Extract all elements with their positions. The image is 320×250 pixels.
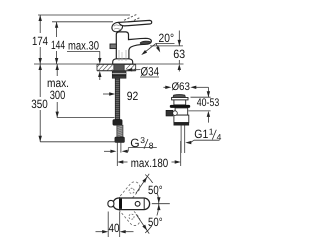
extension line countertop level <box>34 63 184 65</box>
svg-text:G1: G1 <box>194 127 208 141</box>
svg-text:3: 3 <box>140 135 145 145</box>
top view pivot bar <box>119 199 122 209</box>
dim 174 <box>39 15 41 33</box>
faucet raised lever dashed <box>124 14 138 20</box>
dim diam 63 <box>163 86 165 88</box>
svg-text:350: 350 <box>31 97 48 111</box>
shank through counter <box>114 64 124 71</box>
arc 50 down <box>145 204 159 233</box>
G3/8 arrows <box>104 150 111 152</box>
top view body <box>113 198 150 210</box>
extension line solid lever top (144 ref) <box>52 21 113 23</box>
svg-text:Ø34: Ø34 <box>141 64 160 78</box>
dim 350 <box>39 64 41 97</box>
top view dashed handle down 50deg <box>117 201 142 228</box>
svg-text:63: 63 <box>173 47 185 61</box>
label 50 down <box>147 216 165 227</box>
drain tailpipe <box>180 126 182 154</box>
top view dashed handle up 50deg <box>117 180 142 207</box>
dim 144 <box>56 22 58 37</box>
extension line max300 bottom <box>57 117 114 119</box>
faucet body and spout <box>116 32 151 64</box>
extension line 350 bottom <box>40 141 118 143</box>
svg-text:300: 300 <box>50 88 66 102</box>
label 50 up <box>147 183 165 194</box>
dim max.300 <box>56 64 58 76</box>
svg-text:8: 8 <box>149 141 154 151</box>
svg-text:max.180: max.180 <box>131 156 169 170</box>
arc 50 up <box>145 175 159 204</box>
top view spout nub <box>108 200 114 207</box>
mounting nut <box>112 71 126 78</box>
svg-text:92: 92 <box>127 89 139 103</box>
leader 50 up <box>136 174 149 193</box>
hose tail <box>116 142 118 152</box>
svg-text:40-53: 40-53 <box>197 97 220 109</box>
drain locknut <box>174 115 189 122</box>
pull rod knob <box>110 44 116 49</box>
threaded rod <box>115 78 119 119</box>
hose end nut G3/8 <box>115 137 125 142</box>
lever handle <box>119 20 152 26</box>
svg-text:50°: 50° <box>148 183 163 197</box>
svg-text:max.30: max.30 <box>68 38 99 52</box>
top view cartridge circle <box>135 201 140 206</box>
extension line top of lever (174 ref) <box>38 14 130 16</box>
drain locknut base <box>174 123 190 126</box>
lever head <box>110 21 124 34</box>
svg-text:144: 144 <box>51 38 65 52</box>
label Ø34 <box>126 68 132 71</box>
svg-text:50°: 50° <box>148 215 163 229</box>
pull rod socket <box>166 110 173 116</box>
faucet base <box>113 59 133 64</box>
svg-text:Ø63: Ø63 <box>171 81 190 93</box>
body shading <box>118 50 120 61</box>
svg-text:20°: 20° <box>159 31 175 45</box>
top view handle cap line <box>143 199 145 209</box>
dim 40-53 <box>207 87 209 97</box>
aerator <box>140 41 151 45</box>
svg-text:40: 40 <box>109 221 120 235</box>
svg-text:174: 174 <box>32 34 48 48</box>
hose coupling nut <box>113 120 122 126</box>
dim 92 leader <box>103 93 110 95</box>
top view centerline <box>152 203 170 205</box>
drain body <box>175 108 188 115</box>
drain flange <box>172 98 188 100</box>
flexible hose <box>117 125 123 137</box>
dim 63 <box>178 31 180 46</box>
dim 40 <box>107 212 109 238</box>
drain o-ring <box>170 105 190 108</box>
dim max.180 <box>116 153 118 166</box>
leader 50 down <box>136 214 149 233</box>
svg-text:1: 1 <box>209 126 214 136</box>
drain plug cap <box>173 95 185 98</box>
